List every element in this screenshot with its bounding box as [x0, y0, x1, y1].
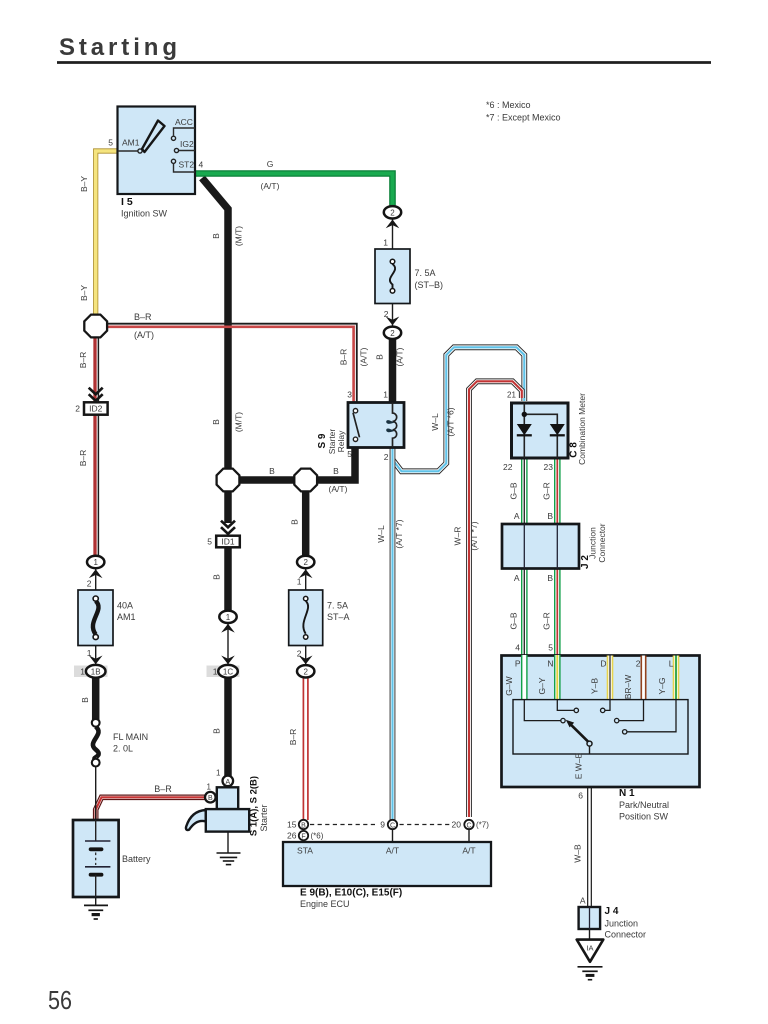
svg-text:B–R: B–R: [78, 352, 88, 369]
svg-text:G: G: [267, 159, 274, 169]
park/neutral position switch N1: [502, 656, 700, 788]
wire B-R octagon node down to connector 1: [95, 337, 98, 557]
svg-text:Relay: Relay: [336, 430, 346, 452]
octagon node B wires right: [294, 469, 317, 492]
svg-text:6: 6: [578, 791, 583, 801]
wire Y-G stub inside N1: [673, 656, 680, 701]
ECU pin 20 C: [452, 820, 490, 830]
svg-text:2: 2: [390, 208, 395, 217]
wire Y-B stub inside N1: [607, 656, 614, 701]
svg-text:4: 4: [515, 643, 520, 653]
svg-text:W–L: W–L: [430, 413, 440, 431]
wire label B-R (A/T) at relay pin 3: [339, 347, 369, 366]
wire label B-R (A/T) horizontal: [134, 312, 154, 340]
svg-text:ST2: ST2: [179, 160, 195, 170]
title Starting: [57, 34, 711, 63]
svg-text:2: 2: [303, 667, 308, 676]
svg-text:ID1: ID1: [221, 537, 235, 547]
svg-text:G–Y: G–Y: [537, 677, 547, 694]
svg-text:5: 5: [108, 138, 113, 148]
svg-text:Y–B: Y–B: [590, 678, 600, 694]
svg-text:2: 2: [75, 404, 80, 414]
N1 pin and wire labels: [504, 643, 674, 822]
wire label B (M/T) upper: [211, 226, 244, 246]
combination meter C8: [503, 391, 587, 473]
wire G-W stub inside N1: [521, 655, 528, 700]
svg-text:B–R: B–R: [288, 729, 298, 746]
svg-text:(A/T): (A/T): [329, 484, 348, 494]
wire B 1C to starter pin A: [224, 676, 232, 777]
svg-text:G–B: G–B: [509, 612, 519, 629]
connector 1 mid column: [219, 611, 236, 633]
svg-text:40A: 40A: [117, 601, 133, 611]
wire W-B N1 pin 6 down to J4 pin A: [587, 754, 592, 907]
svg-text:B: B: [375, 354, 385, 360]
svg-text:A/T: A/T: [386, 846, 399, 856]
wire G-B J2 pin A to N1 pin 4: [521, 567, 528, 656]
svg-text:AM1: AM1: [122, 138, 140, 148]
svg-text:F: F: [301, 833, 305, 840]
svg-text:2: 2: [384, 309, 389, 319]
svg-text:21: 21: [507, 391, 516, 400]
N1 inner contact box and switch: [513, 700, 688, 754]
svg-text:26: 26: [287, 831, 297, 841]
svg-text:ST–A: ST–A: [327, 612, 350, 622]
svg-text:AM1: AM1: [117, 612, 136, 622]
ECU pin 26 F: [287, 831, 324, 841]
svg-text:Connector: Connector: [597, 523, 607, 562]
svg-text:STA: STA: [297, 846, 313, 856]
wire B (A/T) octagon to octagon to starter relay pin 5: [228, 446, 355, 480]
connector 1 left column: [87, 556, 104, 578]
svg-text:1: 1: [226, 613, 231, 622]
svg-text:E 9(B), E10(C), E15(F): E 9(B), E10(C), E15(F): [300, 888, 402, 899]
engine ECU: [283, 842, 491, 909]
connector 1C with band: [207, 656, 240, 678]
svg-text:B: B: [333, 466, 339, 476]
svg-text:A: A: [514, 511, 520, 521]
svg-text:B–R: B–R: [134, 312, 152, 322]
fuse 7.5A ST-A: [289, 577, 350, 659]
wire BR-W stub inside N1: [641, 656, 647, 701]
svg-text:15: 15: [287, 820, 297, 830]
svg-text:A: A: [225, 779, 230, 786]
wire W-L (A/T *6) branch from relay pin2 to combination meter pin 21: [393, 347, 525, 471]
svg-text:5: 5: [548, 643, 553, 653]
svg-text:FL MAIN: FL MAIN: [113, 732, 148, 742]
starter relay S9: [317, 390, 404, 463]
note asterisk legend: [486, 100, 561, 123]
svg-text:2: 2: [636, 659, 641, 669]
wire B octagon down to connector 2 (ST-A column): [302, 489, 310, 558]
svg-text:B: B: [547, 573, 553, 583]
svg-text:B: B: [211, 419, 221, 425]
svg-text:N: N: [547, 659, 553, 669]
svg-text:Park/Neutral: Park/Neutral: [619, 800, 669, 810]
wire B-Y from I5 AM1 to junction node: [96, 151, 118, 320]
svg-text:B: B: [208, 795, 213, 802]
ID1 splice: [207, 521, 240, 548]
svg-text:3: 3: [347, 390, 352, 400]
svg-text:Y–G: Y–G: [657, 677, 667, 694]
wire label W-L (A/T *6): [430, 407, 456, 436]
svg-text:P: P: [515, 659, 521, 669]
wire W-L (A/T *7) relay pin 2 down to ECU pin 9: [390, 448, 396, 820]
svg-text:ACC: ACC: [175, 117, 193, 127]
wire B (A/T) fuse ST-B connector to relay pin 1: [389, 336, 397, 403]
ignition switch I5: [108, 107, 203, 219]
octagon node B-Y/B-R junction: [84, 315, 107, 338]
ECU dashed links: [310, 824, 453, 826]
connector 1B with band: [74, 656, 108, 678]
svg-text:ID2: ID2: [89, 404, 103, 414]
fusible link FL MAIN 2.0L: [92, 719, 148, 767]
junction connector J4: [573, 844, 647, 940]
svg-text:G–R: G–R: [541, 612, 551, 629]
wire B-R battery to starter pin B: [96, 797, 206, 820]
wire label W-R (A/T *7): [453, 521, 480, 550]
svg-text:B: B: [211, 233, 221, 239]
svg-text:(A/T): (A/T): [261, 181, 280, 191]
svg-text:1: 1: [297, 577, 302, 587]
svg-text:Ignition SW: Ignition SW: [121, 209, 168, 219]
battery ground: [84, 905, 108, 919]
svg-text:1: 1: [213, 667, 218, 677]
svg-text:23: 23: [544, 462, 554, 472]
svg-text:L: L: [669, 659, 674, 669]
svg-text:(A/T): (A/T): [359, 347, 369, 366]
battery: [73, 820, 151, 897]
fuse 40A AM1: [78, 579, 136, 659]
svg-text:(A/T): (A/T): [395, 347, 405, 366]
svg-text:(*6): (*6): [311, 832, 324, 841]
svg-text:A/T: A/T: [462, 846, 475, 856]
svg-text:G–R: G–R: [541, 482, 551, 499]
ground IA: [577, 940, 604, 980]
svg-text:22: 22: [503, 462, 513, 472]
svg-text:B: B: [269, 466, 275, 476]
wire G-Y stub inside N1: [554, 655, 561, 700]
svg-text:2: 2: [384, 452, 389, 462]
svg-text:1: 1: [207, 783, 212, 792]
starter ground: [217, 853, 241, 865]
svg-text:W–R: W–R: [453, 527, 463, 546]
wire G-R J2 pin B to N1 pin 5: [554, 567, 561, 656]
svg-text:W–B: W–B: [573, 844, 583, 863]
svg-text:Starter: Starter: [259, 804, 269, 831]
octagon node B wires left: [217, 469, 240, 492]
svg-text:1: 1: [80, 667, 85, 677]
svg-text:B–R: B–R: [154, 784, 172, 794]
svg-text:(M/T): (M/T): [234, 412, 244, 432]
svg-text:(M/T): (M/T): [234, 226, 244, 246]
svg-text:Engine ECU: Engine ECU: [300, 899, 350, 909]
connector 2 right column bottom: [297, 656, 314, 678]
svg-text:A: A: [580, 896, 586, 906]
svg-text:C: C: [390, 822, 395, 829]
svg-text:Battery: Battery: [122, 854, 151, 864]
svg-text:1B: 1B: [91, 667, 101, 676]
connector 2 right column top: [297, 556, 314, 578]
svg-text:A: A: [514, 573, 520, 583]
svg-text:B–Y: B–Y: [79, 285, 89, 301]
svg-text:S 1(A), S 2(B): S 1(A), S 2(B): [249, 776, 260, 836]
svg-text:*6 : Mexico: *6 : Mexico: [486, 100, 531, 110]
starter S1(A), S2(B): [186, 769, 269, 837]
wire G from I5 ST2 to connector 2: [195, 174, 393, 208]
wire B-R connector 2 down to ECU pin 15: [303, 677, 308, 820]
svg-text:G–B: G–B: [509, 482, 519, 499]
svg-text:IA: IA: [586, 944, 593, 953]
svg-text:(A/T): (A/T): [134, 330, 154, 340]
wire B (M/T) branch from G down to octagon junction: [202, 178, 228, 471]
wire label B (A/T) at relay pin 1: [375, 347, 405, 366]
svg-text:Junction: Junction: [605, 919, 639, 929]
svg-text:B: B: [212, 728, 222, 734]
svg-text:1C: 1C: [223, 667, 233, 676]
svg-text:(*7): (*7): [476, 821, 489, 830]
svg-text:1: 1: [383, 390, 388, 400]
ECU pin 9 C: [380, 820, 397, 830]
svg-text:*7 : Except Mexico: *7 : Except Mexico: [486, 113, 561, 123]
svg-text:1: 1: [383, 238, 388, 248]
svg-text:5: 5: [207, 537, 212, 547]
svg-text:(ST–B): (ST–B): [415, 280, 444, 290]
wire B ID1 to connector 1: [224, 545, 232, 613]
svg-text:B: B: [547, 511, 553, 521]
svg-text:B: B: [301, 822, 306, 829]
wire label G (A/T): [261, 159, 280, 191]
wire G-B C8 pin 22 to J2 pin A: [521, 458, 528, 525]
svg-text:(A/T *7): (A/T *7): [469, 521, 479, 550]
svg-text:B: B: [212, 574, 222, 580]
svg-text:Connector: Connector: [605, 930, 647, 940]
svg-text:7. 5A: 7. 5A: [415, 268, 436, 278]
wire label B (A/T) right of octagon: [329, 466, 348, 494]
svg-text:4: 4: [199, 160, 204, 170]
svg-text:2: 2: [303, 558, 308, 567]
svg-text:9: 9: [380, 820, 385, 830]
ECU pin 15 B: [287, 820, 308, 830]
junction connector J2: [502, 511, 607, 583]
svg-text:B–Y: B–Y: [79, 176, 89, 192]
svg-text:G–W: G–W: [504, 676, 514, 695]
svg-text:20: 20: [452, 820, 462, 830]
wire W-R (A/T *7) ECU pin 20 to combination meter pin 21: [469, 381, 522, 817]
svg-text:W–L: W–L: [376, 525, 386, 543]
svg-text:IG2: IG2: [180, 139, 194, 149]
svg-text:(A/T *6): (A/T *6): [446, 407, 456, 436]
svg-text:I 5: I 5: [121, 196, 133, 208]
svg-text:B–R: B–R: [78, 450, 88, 467]
ID2 splice: [75, 388, 107, 415]
svg-text:B: B: [290, 519, 300, 525]
svg-text:BR–W: BR–W: [623, 675, 633, 700]
svg-text:Combination Meter: Combination Meter: [577, 393, 587, 465]
wire label W-L (A/T *7): [376, 519, 404, 548]
svg-text:D: D: [600, 659, 606, 669]
wire B 1B to fusible link FL MAIN: [92, 675, 100, 721]
svg-text:B: B: [80, 697, 90, 703]
svg-text:B–R: B–R: [339, 349, 349, 366]
connector 2 above relay: [384, 317, 401, 339]
svg-text:5: 5: [347, 449, 352, 459]
svg-text:2: 2: [390, 329, 395, 338]
fuse 7.5A ST-B: [375, 238, 443, 320]
connector oval 2 green wire top: [384, 206, 401, 228]
svg-text:C: C: [466, 822, 471, 829]
thin wire connector links: [96, 218, 469, 905]
svg-text:Junction: Junction: [588, 527, 598, 559]
svg-text:1: 1: [93, 558, 98, 567]
wire G-R C8 pin 23 to J2 pin B: [554, 458, 561, 525]
svg-text:2: 2: [87, 579, 92, 589]
svg-text:J 4: J 4: [605, 906, 619, 917]
svg-text:1: 1: [216, 769, 221, 778]
wire label B (M/T) lower: [211, 412, 244, 432]
wire B-R octagon node to relay pin 3: [107, 324, 357, 403]
svg-text:(A/T *7): (A/T *7): [394, 519, 404, 548]
svg-text:7. 5A: 7. 5A: [327, 601, 348, 611]
wire B octagon down to ID1: [224, 489, 232, 523]
svg-text:N 1: N 1: [619, 788, 635, 799]
svg-text:2. 0L: 2. 0L: [113, 744, 133, 754]
svg-text:56: 56: [48, 985, 72, 1015]
svg-text:Position SW: Position SW: [619, 812, 669, 822]
svg-text:E W–B: E W–B: [574, 752, 584, 779]
